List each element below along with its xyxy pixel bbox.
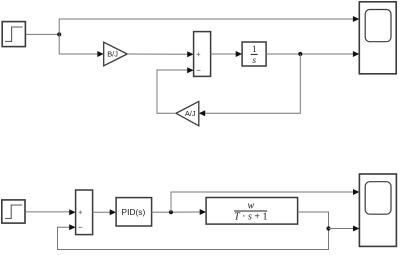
svg-text:B/J: B/J — [107, 50, 118, 59]
arrowhead into scope top input — [353, 16, 359, 22]
gain A/J triangle (flipped) — [176, 101, 199, 125]
wire junction up to top rail — [59, 19, 353, 34]
integrator 1/s block — [242, 42, 266, 66]
arrowhead into sum + input — [187, 51, 193, 57]
arrowhead into sum2 minus input — [69, 224, 75, 230]
wire junction down to gain rail — [59, 34, 97, 54]
wire feedback down and left to A/J input — [204, 54, 300, 113]
arrowhead into scope2 top input — [353, 189, 359, 195]
transfer function block w/(T·s+1) — [206, 198, 298, 225]
svg-text:PID(s): PID(s) — [122, 207, 146, 217]
arrowhead into integrator — [236, 51, 242, 57]
step source block (Step1) — [2, 22, 25, 47]
svg-text:s: s — [252, 55, 256, 65]
arrowhead into PID — [110, 209, 116, 215]
node junction dot on integrator output — [298, 52, 302, 56]
arrowhead into sum2 + input — [69, 209, 75, 215]
arrowhead into scope2 bottom input — [353, 226, 359, 232]
scope block (Scope2) — [359, 174, 396, 246]
wire step2 to sum2 — [25, 211, 69, 213]
svg-text:A/J: A/J — [185, 109, 196, 118]
wire sum2 to PID — [93, 211, 110, 213]
wire junction up to scope2 top input — [171, 192, 353, 212]
wire sum to integrator — [211, 53, 236, 55]
node junction dot on TF feedback vertical — [326, 226, 330, 230]
gain B/J triangle — [104, 42, 128, 66]
arrowhead into sum minus input — [187, 67, 193, 73]
wire step1 output to junction — [26, 33, 59, 35]
wire gain to sum — [127, 53, 187, 55]
node junction dot after PID — [169, 210, 173, 214]
wire integrator to scope bottom input — [266, 53, 353, 55]
arrowhead into gain B/J — [97, 51, 103, 57]
svg-text:1: 1 — [252, 44, 257, 54]
svg-text:T · s + 1: T · s + 1 — [234, 211, 267, 222]
arrowhead into scope bottom input — [353, 51, 359, 57]
node junction dot after Step1 — [57, 32, 61, 36]
sum block (Add2) — [76, 190, 93, 235]
arrowhead into transfer fcn — [200, 209, 206, 215]
sum block (Add1) — [194, 32, 211, 77]
svg-text:w: w — [247, 201, 254, 212]
wire A/J output left, up, right to sum minus input — [157, 70, 187, 113]
step source block (Step2) — [2, 200, 25, 223]
wire TF output right and down — [58, 212, 329, 250]
arrowhead into gain A/J (pointing left) — [199, 110, 205, 116]
wire junction to scope2 bottom input — [329, 228, 354, 230]
wire PID output to transfer fcn — [152, 211, 200, 213]
scope block (Scope1) — [359, 2, 396, 74]
PID controller block — [116, 198, 152, 226]
